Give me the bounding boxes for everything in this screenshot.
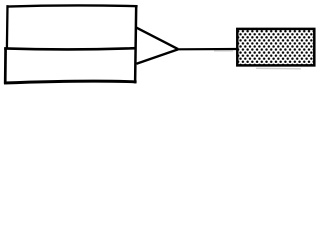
funnel triangle top slant	[137, 28, 179, 49]
halftone box (dotted fill)	[237, 29, 314, 66]
box B (bottom rectangle) left edge	[4, 47, 7, 83]
funnel triangle bottom slant	[137, 49, 179, 63]
wire from funnel tip to halftone box	[177, 48, 237, 50]
shared right edge of box A and box B	[135, 5, 136, 83]
divider line between box A and box B	[4, 48, 136, 49]
scan smudge under halftone box	[256, 67, 301, 70]
scan smudge under wire	[214, 50, 233, 52]
box A (top rectangle) left edge	[6, 5, 9, 48]
box A (top rectangle) top edge	[7, 5, 138, 6]
box B (bottom rectangle) bottom edge	[4, 81, 137, 83]
